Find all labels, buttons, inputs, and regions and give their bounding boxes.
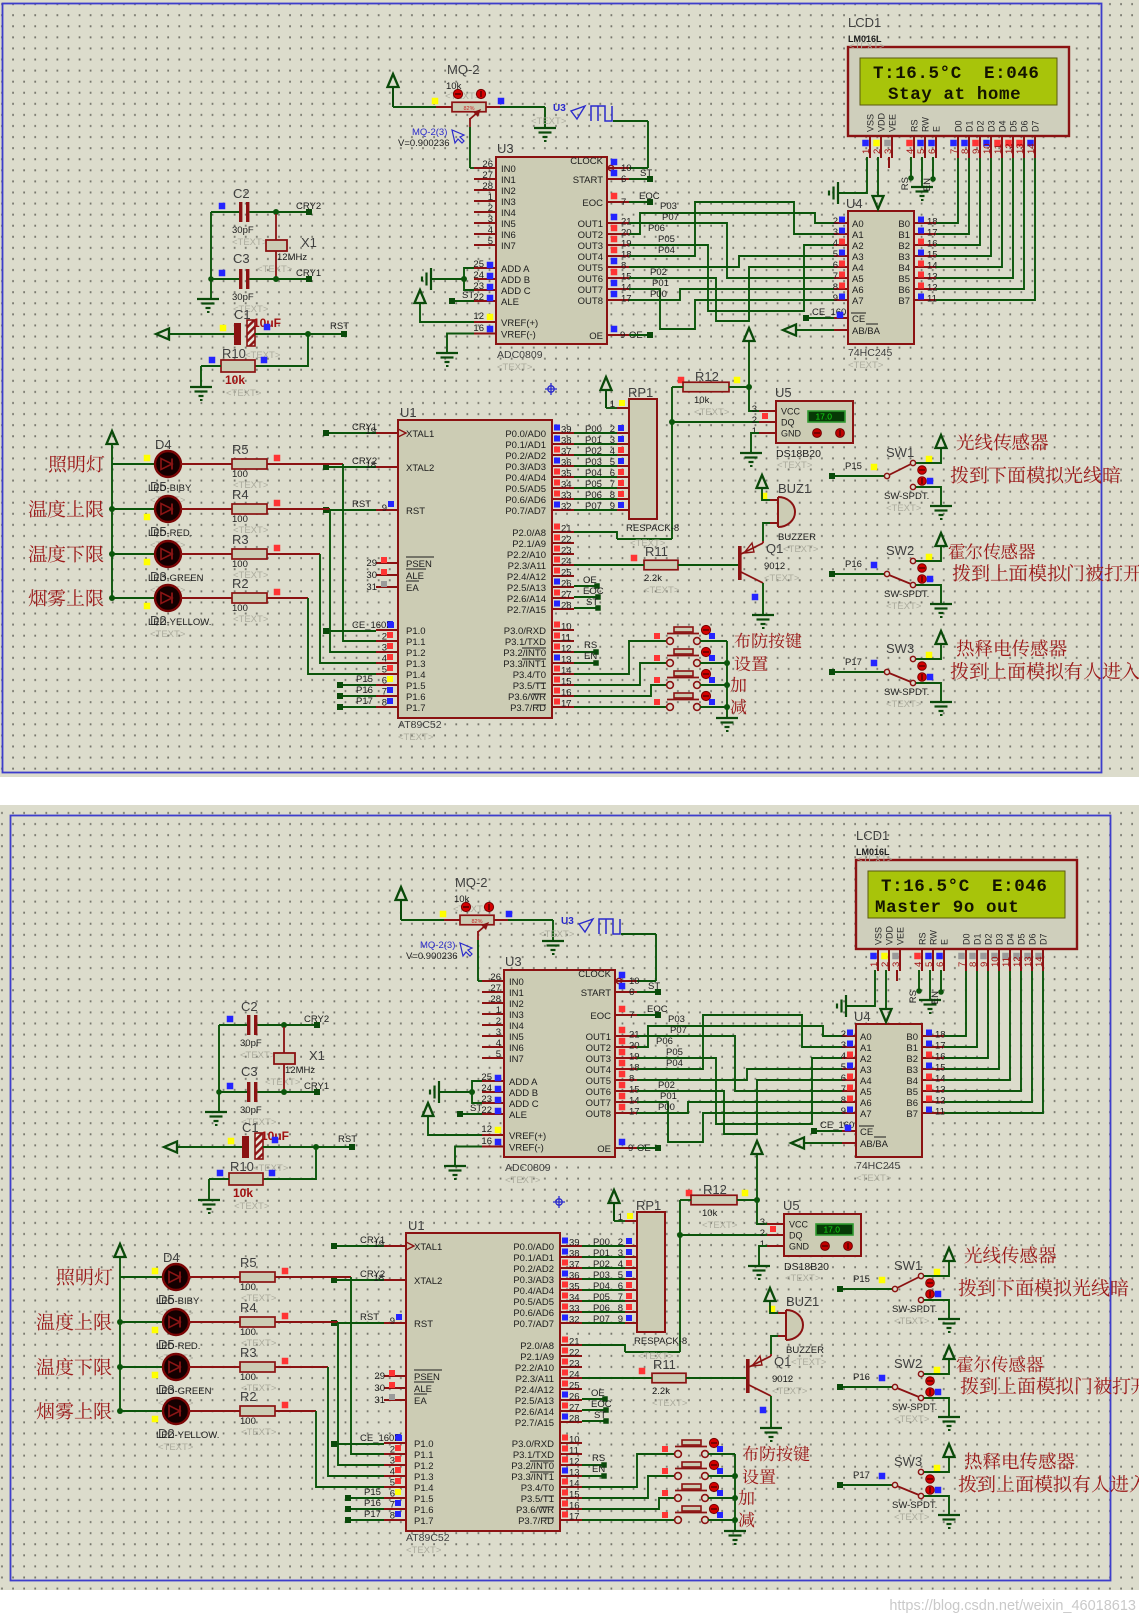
svg-text:VSS: VSS: [874, 927, 884, 945]
svg-text:3: 3: [760, 1217, 765, 1228]
svg-text:4: 4: [841, 1051, 846, 1062]
svg-text:2.2k: 2.2k: [652, 1386, 670, 1397]
svg-text:3: 3: [841, 1040, 846, 1051]
svg-text:VCC: VCC: [781, 407, 801, 417]
svg-text:<TEXT>: <TEXT>: [234, 1201, 270, 1212]
svg-text:MQ-2(3): MQ-2(3): [412, 127, 447, 138]
svg-text:P1.3: P1.3: [414, 1472, 434, 1483]
svg-text:P02: P02: [585, 446, 602, 457]
svg-text:10: 10: [621, 163, 632, 174]
svg-text:OUT6: OUT6: [578, 274, 603, 285]
svg-text:A7: A7: [860, 1109, 872, 1120]
svg-text:P03: P03: [660, 201, 677, 212]
svg-text:P2.3/A11: P2.3/A11: [516, 1374, 554, 1385]
svg-text:ADD C: ADD C: [509, 1099, 539, 1110]
svg-text:14: 14: [1026, 143, 1037, 154]
svg-text:4: 4: [390, 1467, 395, 1478]
svg-text:<TEXT>: <TEXT>: [398, 732, 434, 743]
svg-text:<TEXT>: <TEXT>: [652, 1398, 688, 1409]
svg-text:<TEXT>: <TEXT>: [848, 360, 884, 371]
svg-text:EOC: EOC: [583, 586, 604, 597]
svg-text:VEE: VEE: [888, 114, 898, 132]
svg-text:BUZZER: BUZZER: [786, 1345, 824, 1356]
svg-text:P00: P00: [593, 1237, 610, 1248]
svg-text:P1.2: P1.2: [406, 648, 426, 659]
svg-text:1: 1: [488, 192, 493, 203]
svg-text:P06: P06: [593, 1303, 610, 1314]
svg-text:P3.4/T0: P3.4/T0: [521, 1483, 554, 1494]
svg-text:SW-SPDT.: SW-SPDT.: [892, 1500, 937, 1511]
svg-text:21: 21: [561, 524, 572, 535]
svg-text:P16: P16: [356, 685, 373, 696]
svg-text:17: 17: [629, 1107, 640, 1118]
svg-text:P04: P04: [585, 468, 602, 479]
svg-text:DS18B20: DS18B20: [776, 448, 821, 460]
svg-text:MQ-2: MQ-2: [455, 875, 488, 890]
svg-text:P16: P16: [845, 559, 862, 570]
svg-text:MQ-2(3): MQ-2(3): [420, 940, 455, 951]
svg-text:P3.2/INT0: P3.2/INT0: [511, 1461, 554, 1472]
svg-text:D4: D4: [163, 1250, 180, 1265]
svg-text:9: 9: [382, 503, 387, 514]
svg-text:<TEXT>: <TEXT>: [226, 388, 262, 399]
svg-text:EN: EN: [930, 991, 941, 1004]
svg-text:10k: 10k: [702, 1208, 718, 1219]
svg-text:D0: D0: [954, 120, 964, 132]
svg-text:IN1: IN1: [509, 988, 524, 999]
svg-text:P17: P17: [853, 1470, 870, 1481]
svg-text:PSEN: PSEN: [414, 1372, 440, 1383]
svg-text:12: 12: [569, 1457, 580, 1468]
svg-text:XTAL2: XTAL2: [406, 463, 434, 474]
svg-text:12: 12: [481, 1124, 492, 1135]
svg-text:SW1: SW1: [886, 445, 914, 460]
svg-text:OUT3: OUT3: [578, 241, 603, 252]
svg-text:30pF: 30pF: [240, 1038, 262, 1049]
svg-text:RESPACK-8: RESPACK-8: [634, 1336, 687, 1347]
svg-text:B6: B6: [898, 285, 910, 296]
svg-text:36: 36: [561, 458, 572, 469]
svg-text:RW: RW: [921, 117, 931, 132]
svg-text:11: 11: [927, 294, 937, 305]
svg-text:30: 30: [366, 570, 377, 581]
svg-text:XTAL2: XTAL2: [414, 1276, 442, 1287]
svg-text:P1.7: P1.7: [414, 1516, 434, 1527]
svg-text:8: 8: [382, 698, 387, 709]
svg-text:37: 37: [569, 1260, 580, 1271]
svg-text:LED-RED.: LED-RED.: [148, 528, 192, 539]
svg-text:A6: A6: [860, 1098, 872, 1109]
svg-text:12MHz: 12MHz: [277, 252, 307, 263]
svg-text:<TEXT>: <TEXT>: [531, 116, 567, 127]
svg-text:100: 100: [240, 1282, 256, 1293]
svg-text:2: 2: [841, 1029, 846, 1040]
svg-text:P2.7/A15: P2.7/A15: [515, 1418, 554, 1429]
svg-text:A1: A1: [852, 230, 864, 241]
svg-text:P0.2/AD2: P0.2/AD2: [513, 1264, 554, 1275]
svg-text:AB/BA: AB/BA: [860, 1139, 889, 1150]
svg-text:ADC0809: ADC0809: [497, 349, 543, 361]
svg-text:RST: RST: [352, 499, 371, 510]
svg-text:T:16.5°C E:046: T:16.5°C E:046: [881, 877, 1048, 897]
svg-text:RST: RST: [330, 321, 349, 332]
svg-text:OE: OE: [583, 575, 597, 586]
svg-text:<TEXT>: <TEXT>: [764, 573, 800, 584]
svg-text:<TEXT>: <TEXT>: [241, 1427, 277, 1438]
svg-text:36: 36: [569, 1271, 580, 1282]
svg-text:EOC: EOC: [591, 1399, 612, 1410]
svg-text:U1: U1: [400, 405, 417, 420]
svg-text:OUT4: OUT4: [586, 1065, 611, 1076]
svg-text:R10: R10: [222, 346, 246, 361]
svg-text:P03: P03: [585, 457, 602, 468]
svg-text:P1.2: P1.2: [414, 1461, 434, 1472]
svg-text:AT89C52: AT89C52: [398, 719, 442, 731]
svg-text:P1.6: P1.6: [414, 1505, 434, 1516]
svg-text:D6: D6: [1020, 120, 1030, 132]
svg-text:P2.5/A13: P2.5/A13: [507, 583, 546, 594]
svg-text:ADD A: ADD A: [509, 1077, 538, 1088]
svg-text:2: 2: [488, 203, 493, 214]
svg-text:100: 100: [240, 1327, 256, 1338]
svg-text:26: 26: [561, 579, 572, 590]
svg-text:OUT1: OUT1: [586, 1032, 611, 1043]
svg-text:17: 17: [569, 1512, 580, 1523]
svg-text:4: 4: [905, 149, 916, 154]
svg-text:15: 15: [629, 1085, 640, 1096]
svg-text:P3.4/T0: P3.4/T0: [513, 670, 546, 681]
svg-text:<TEXT>: <TEXT>: [791, 1357, 827, 1368]
svg-text:P07: P07: [670, 1025, 687, 1036]
svg-text:24: 24: [561, 557, 572, 568]
svg-text:A2: A2: [852, 241, 864, 252]
svg-text:24: 24: [569, 1370, 580, 1381]
svg-text:RS: RS: [918, 932, 928, 945]
svg-text:A3: A3: [852, 252, 864, 263]
svg-text:12: 12: [1012, 956, 1023, 967]
svg-text:P2.2/A10: P2.2/A10: [507, 550, 546, 561]
svg-text:A3: A3: [860, 1065, 872, 1076]
svg-text:A1: A1: [860, 1043, 872, 1054]
svg-text:1: 1: [760, 1239, 765, 1250]
svg-text:6: 6: [382, 676, 387, 687]
svg-text:<TEXT>: <TEXT>: [406, 1545, 442, 1556]
svg-text:P3.0/RXD: P3.0/RXD: [504, 626, 546, 637]
svg-text:14: 14: [629, 1096, 640, 1107]
svg-text:15: 15: [561, 677, 572, 688]
svg-text:P0.6/AD6: P0.6/AD6: [505, 495, 546, 506]
svg-text:P1.0: P1.0: [414, 1439, 434, 1450]
svg-text:8: 8: [629, 1074, 634, 1085]
svg-text:P3.3/INT1: P3.3/INT1: [503, 659, 546, 670]
svg-text:25: 25: [473, 259, 484, 270]
svg-text:B4: B4: [898, 263, 910, 274]
svg-text:9: 9: [628, 1143, 633, 1154]
svg-text:A0: A0: [852, 219, 864, 230]
svg-text:A2: A2: [860, 1054, 872, 1065]
svg-text:LCD1: LCD1: [848, 15, 881, 30]
svg-text:16: 16: [561, 688, 572, 699]
svg-text:D1: D1: [973, 933, 983, 945]
svg-text:RP1: RP1: [628, 385, 653, 400]
svg-text:P0.1/AD1: P0.1/AD1: [513, 1253, 554, 1264]
svg-text:35: 35: [569, 1282, 580, 1293]
svg-text:D3: D3: [995, 933, 1005, 945]
svg-text:27: 27: [490, 983, 501, 994]
svg-text:CE: CE: [860, 1127, 873, 1138]
svg-text:4: 4: [833, 238, 838, 249]
svg-text:ST: ST: [594, 1410, 606, 1421]
svg-text:28: 28: [569, 1414, 580, 1425]
svg-text:17.0: 17.0: [815, 412, 832, 422]
svg-text:P17: P17: [356, 696, 373, 707]
svg-text:11: 11: [935, 1107, 945, 1118]
svg-text:R4: R4: [232, 487, 249, 502]
svg-text:30pF: 30pF: [232, 292, 254, 303]
svg-text:26: 26: [490, 972, 501, 983]
svg-text:30pF: 30pF: [232, 225, 254, 236]
svg-text:EN: EN: [584, 651, 597, 662]
svg-text:<TEXT>: <TEXT>: [777, 460, 813, 471]
svg-text:DS18B20: DS18B20: [784, 1261, 829, 1273]
svg-text:U3: U3: [497, 141, 514, 156]
svg-text:CRY1: CRY1: [304, 1081, 329, 1092]
svg-text:P1.5: P1.5: [414, 1494, 434, 1505]
svg-text:22: 22: [481, 1105, 492, 1116]
svg-text:XTAL1: XTAL1: [406, 429, 434, 440]
svg-text:19: 19: [629, 1052, 640, 1063]
svg-text:A0: A0: [860, 1032, 872, 1043]
svg-text:OE: OE: [597, 1144, 611, 1155]
svg-text:14: 14: [621, 283, 632, 294]
svg-text:31: 31: [366, 582, 377, 593]
svg-text:13: 13: [561, 655, 572, 666]
svg-text:RST: RST: [360, 1312, 379, 1323]
svg-text:22: 22: [473, 292, 484, 303]
svg-text:X1: X1: [301, 235, 317, 250]
svg-text:2: 2: [382, 632, 387, 643]
svg-text:SW3: SW3: [894, 1454, 922, 1469]
svg-text:2: 2: [760, 1228, 765, 1239]
svg-text:P02: P02: [593, 1259, 610, 1270]
svg-text:15: 15: [927, 250, 938, 261]
svg-text:1: 1: [618, 1212, 623, 1223]
svg-text:P1.6: P1.6: [406, 692, 426, 703]
svg-text:28: 28: [490, 994, 501, 1005]
svg-text:74HC245: 74HC245: [856, 1160, 901, 1172]
svg-text:RS: RS: [584, 640, 597, 651]
svg-text:LCD1: LCD1: [856, 828, 889, 843]
svg-text:IN6: IN6: [509, 1043, 524, 1054]
svg-text:P04: P04: [658, 245, 675, 256]
svg-text:34: 34: [561, 480, 572, 491]
svg-text:37: 37: [561, 447, 572, 458]
svg-text:ALE: ALE: [406, 571, 424, 582]
svg-text:12: 12: [1004, 143, 1015, 154]
svg-text:P07: P07: [585, 501, 602, 512]
svg-text:14: 14: [569, 1479, 580, 1490]
svg-text:A7: A7: [852, 296, 864, 307]
svg-text:A4: A4: [860, 1076, 872, 1087]
svg-text:<TEXT>: <TEXT>: [849, 41, 885, 52]
svg-text:1: 1: [861, 149, 872, 154]
svg-text:RW: RW: [929, 930, 939, 945]
svg-text:P1.5: P1.5: [406, 681, 426, 692]
svg-text:<TEXT>: <TEXT>: [886, 699, 922, 710]
svg-text:VREF(-): VREF(-): [501, 330, 536, 341]
svg-text:6: 6: [629, 987, 634, 998]
svg-text:ADD B: ADD B: [509, 1088, 538, 1099]
svg-text:OUT8: OUT8: [578, 296, 603, 307]
svg-text:P17: P17: [845, 657, 862, 668]
svg-text:9: 9: [620, 330, 625, 341]
svg-text:<TEXT>: <TEXT>: [886, 601, 922, 612]
svg-text:Q1: Q1: [774, 1354, 791, 1369]
svg-text:Stay at home: Stay at home: [888, 85, 1021, 105]
svg-text:<TEXT>: <TEXT>: [783, 544, 819, 555]
svg-text:<TEXT>: <TEXT>: [856, 1173, 892, 1184]
svg-text:R2: R2: [232, 576, 249, 591]
svg-text:13: 13: [927, 272, 938, 283]
svg-text:18: 18: [621, 250, 632, 261]
svg-text:4: 4: [496, 1038, 501, 1049]
svg-text:P03: P03: [593, 1270, 610, 1281]
svg-text:RST: RST: [406, 506, 425, 517]
svg-text:P02: P02: [650, 267, 667, 278]
svg-text:ALE: ALE: [501, 297, 519, 308]
svg-text:IN1: IN1: [501, 175, 516, 186]
svg-text:P15: P15: [356, 674, 373, 685]
svg-text:10k: 10k: [225, 373, 245, 387]
svg-text:AB/BA: AB/BA: [852, 326, 881, 337]
svg-text:18: 18: [927, 217, 938, 228]
svg-text:33: 33: [561, 491, 572, 502]
svg-text:A4: A4: [852, 263, 864, 274]
svg-text:7: 7: [957, 962, 968, 967]
svg-text:ADD A: ADD A: [501, 264, 530, 275]
svg-text:<TEXT>: <TEXT>: [638, 1351, 674, 1362]
svg-text:<TEXT>: <TEXT>: [539, 929, 575, 940]
svg-text:P0.2/AD2: P0.2/AD2: [505, 451, 546, 462]
svg-text:P2.0/A8: P2.0/A8: [512, 528, 546, 539]
svg-text:CRY2: CRY2: [296, 201, 321, 212]
svg-text:22: 22: [569, 1348, 580, 1359]
svg-text:P07: P07: [593, 1314, 610, 1325]
svg-text:LED-BIBY: LED-BIBY: [156, 1296, 200, 1307]
svg-text:3: 3: [752, 404, 757, 415]
svg-text:CE_1602: CE_1602: [352, 620, 392, 631]
svg-text:<TEXT>: <TEXT>: [265, 1077, 301, 1088]
svg-text:OUT7: OUT7: [586, 1098, 611, 1109]
svg-text:33: 33: [569, 1304, 580, 1315]
svg-text:5: 5: [916, 149, 927, 154]
svg-text:OUT8: OUT8: [586, 1109, 611, 1120]
svg-text:D3: D3: [987, 120, 997, 132]
svg-text:4: 4: [488, 225, 493, 236]
svg-text:100: 100: [232, 514, 248, 525]
svg-text:8: 8: [390, 1511, 395, 1522]
svg-text:25: 25: [481, 1072, 492, 1083]
svg-text:21: 21: [569, 1337, 580, 1348]
svg-text:CE: CE: [852, 314, 865, 325]
svg-text:82%: 82%: [471, 919, 482, 925]
svg-text:P15: P15: [364, 1487, 381, 1498]
svg-text:16: 16: [473, 323, 484, 334]
svg-text:B1: B1: [898, 230, 910, 241]
svg-text:<TEXT>: <TEXT>: [158, 1442, 194, 1453]
svg-text:P01: P01: [660, 1091, 677, 1102]
svg-text:RS: RS: [908, 990, 919, 1003]
svg-text:OUT2: OUT2: [578, 230, 603, 241]
svg-text:MQ-2: MQ-2: [447, 62, 480, 77]
svg-text:IN3: IN3: [509, 1010, 524, 1021]
svg-text:C2: C2: [233, 186, 250, 201]
svg-text:EA: EA: [414, 1396, 427, 1407]
svg-text:D2: D2: [976, 120, 986, 132]
svg-text:LED-YELLOW.: LED-YELLOW.: [156, 1430, 219, 1441]
svg-text:P0.4/AD4: P0.4/AD4: [505, 473, 546, 484]
svg-text:CLOCK: CLOCK: [578, 969, 611, 980]
svg-text:SW-SPDT.: SW-SPDT.: [892, 1304, 937, 1315]
svg-text:<TEXT>: <TEXT>: [497, 362, 533, 373]
svg-text:10: 10: [569, 1435, 580, 1446]
svg-text:SW1: SW1: [894, 1258, 922, 1273]
svg-text:DQ: DQ: [781, 418, 795, 428]
svg-text:23: 23: [561, 546, 572, 557]
svg-text:10: 10: [982, 143, 993, 154]
svg-text:22: 22: [561, 535, 572, 546]
svg-text:R5: R5: [232, 442, 249, 457]
svg-text:P15: P15: [845, 461, 862, 472]
svg-text:U5: U5: [775, 385, 792, 400]
svg-text:17: 17: [621, 294, 632, 305]
svg-text:3: 3: [390, 1456, 395, 1467]
svg-text:8: 8: [968, 962, 979, 967]
svg-text:3: 3: [488, 214, 493, 225]
svg-text:U1: U1: [408, 1218, 425, 1233]
svg-text:ADD C: ADD C: [501, 286, 531, 297]
svg-text:14: 14: [1034, 956, 1045, 967]
svg-text:26: 26: [482, 159, 493, 170]
svg-text:B7: B7: [906, 1109, 918, 1120]
svg-text:E: E: [940, 939, 950, 945]
svg-text:16: 16: [927, 239, 938, 250]
svg-text:EOC: EOC: [590, 1011, 611, 1022]
svg-text:7: 7: [629, 1010, 634, 1021]
svg-text:B1: B1: [906, 1043, 918, 1054]
svg-text:R5: R5: [240, 1255, 257, 1270]
svg-text:R3: R3: [232, 532, 249, 547]
svg-text:32: 32: [569, 1315, 580, 1326]
svg-text:https://blog.csdn.net/weixin_4: https://blog.csdn.net/weixin_46018613: [889, 1598, 1136, 1614]
svg-text:P01: P01: [585, 435, 602, 446]
svg-text:C2: C2: [241, 999, 258, 1014]
svg-text:P2.2/A10: P2.2/A10: [515, 1363, 554, 1374]
svg-text:START: START: [573, 175, 603, 186]
svg-text:P0.0/AD0: P0.0/AD0: [513, 1242, 554, 1253]
svg-text:SW-SPDT.: SW-SPDT.: [884, 589, 929, 600]
svg-text:DQ: DQ: [789, 1231, 803, 1241]
svg-text:8: 8: [841, 1095, 846, 1106]
svg-text:100: 100: [232, 469, 248, 480]
svg-text:D2: D2: [984, 933, 994, 945]
svg-text:P1.1: P1.1: [406, 637, 426, 648]
svg-text:VREF(-): VREF(-): [509, 1143, 544, 1154]
svg-text:IN4: IN4: [501, 208, 516, 219]
svg-text:16: 16: [935, 1052, 946, 1063]
svg-text:27: 27: [482, 170, 493, 181]
svg-text:11: 11: [1001, 957, 1012, 967]
